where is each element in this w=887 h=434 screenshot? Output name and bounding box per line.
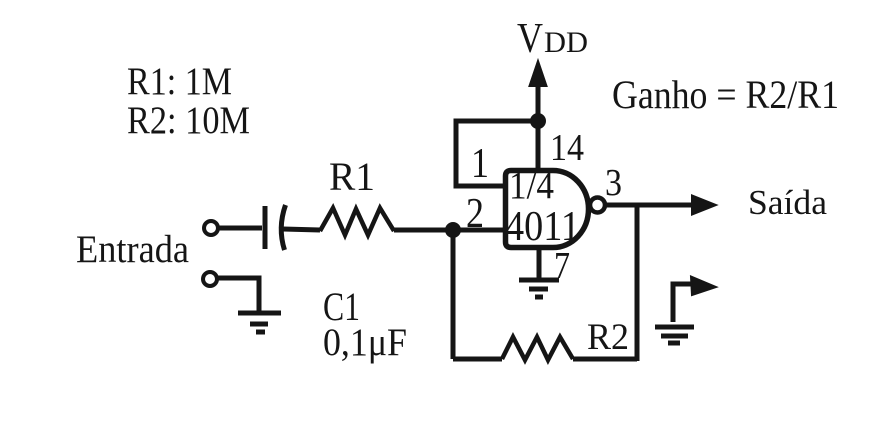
svg-text:R1: R1 [329,154,375,199]
terminal input top (open circle) [204,221,218,235]
terminal input bottom (open circle) [203,272,217,286]
wire R1 to pin 2 of gate [394,228,504,233]
svg-text:DD: DD [544,26,588,59]
wire input terminal to C1 [218,226,262,231]
svg-text:Ganho = R2/R1: Ganho = R2/R1 [612,72,839,117]
output reference arrow [673,284,692,305]
wire C1 to R1 [283,229,320,230]
wire R2 to right corner [573,357,637,362]
svg-text:R2: 10M: R2: 10M [127,99,250,142]
ground input [238,313,281,332]
ground under pin 7 [519,280,559,297]
pin 7 stub wire [537,247,542,280]
svg-text:0,1μF: 0,1μF [323,321,407,364]
wire VDD vertical to pin 14 [536,118,541,171]
resistor R1 [320,208,394,235]
svg-text:V: V [517,16,543,62]
svg-text:R1: 1M: R1: 1M [127,60,232,103]
ground output reference [655,327,694,343]
junction VDD node [530,113,546,129]
power VDD arrow [530,61,547,121]
svg-text:14: 14 [550,127,584,169]
wire to output ground [671,300,676,322]
net VDD label [517,16,588,62]
wire bottom terminal to ground [217,278,259,315]
svg-text:3: 3 [605,162,622,204]
svg-text:Saída: Saída [748,183,827,222]
resistor R2 [502,337,573,360]
svg-text:1/4: 1/4 [509,164,554,207]
op-amp U1 NAND gate 4011 body [506,171,589,248]
junction node A (input node) [445,222,461,238]
svg-text:Entrada: Entrada [76,228,189,271]
inverter bubble on output pin 3 [590,198,605,213]
wire feedback left vertical [451,230,456,359]
svg-text:4011: 4011 [505,204,580,250]
svg-text:R2: R2 [587,317,629,358]
wire output pin 3 [606,203,696,208]
arrowhead output [692,196,716,215]
capacitor C1 [265,205,286,250]
wire feedback right vertical up to output [635,205,640,361]
svg-text:1: 1 [471,141,489,187]
wire feedback bottom to R2 [453,357,502,362]
wire pin1 tie-up loop to VDD [456,121,536,186]
